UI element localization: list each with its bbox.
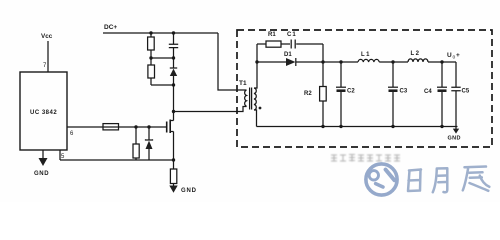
wire RC corner drop bbox=[322, 44, 324, 62]
transformer T1 primary winding bbox=[245, 90, 247, 106]
wire L1 to L2 bbox=[379, 61, 408, 63]
transistor Q1 MOSFET bbox=[166, 122, 168, 133]
svg-text:C3: C3 bbox=[400, 89, 408, 95]
node polarity dot bbox=[259, 107, 262, 110]
svg-text:C2: C2 bbox=[347, 89, 355, 95]
wire primary bottom lead bbox=[174, 107, 246, 112]
node Vcc bbox=[41, 33, 53, 40]
wire R6 bottom lead bbox=[150, 78, 152, 85]
wire Vcc stub bbox=[47, 41, 49, 72]
svg-text:+: + bbox=[456, 52, 460, 59]
transformer T1 secondary winding bbox=[254, 88, 256, 110]
resistor R7 current sense bbox=[170, 169, 176, 184]
wire zener top lead bbox=[148, 127, 150, 140]
capacitor C2 electrolytic bbox=[336, 86, 346, 88]
svg-text:6: 6 bbox=[70, 131, 74, 137]
wire secondary return rail bbox=[257, 126, 458, 128]
wire secondary top lead bbox=[254, 44, 257, 88]
logo characters 日月辰 bbox=[408, 167, 489, 193]
node DC+ bbox=[104, 24, 117, 31]
inductor L2 bbox=[408, 59, 428, 62]
wire source lead bbox=[173, 132, 175, 161]
svg-text:Vcc: Vcc bbox=[41, 33, 53, 40]
svg-text:DC+: DC+ bbox=[104, 24, 117, 31]
svg-text:U: U bbox=[447, 52, 452, 59]
pin 6 bbox=[70, 131, 74, 137]
resistor R3 gate series bbox=[103, 124, 119, 130]
wire R4 top lead bbox=[135, 127, 137, 144]
transformer T1 core bbox=[250, 88, 252, 110]
wire sense resistor bottom lead bbox=[173, 184, 175, 187]
wire R2 bottom lead bbox=[322, 101, 324, 127]
resistor R1 bbox=[266, 41, 281, 47]
wire zener bottom lead bbox=[148, 149, 150, 160]
wire C6 to D2 bbox=[173, 48, 175, 68]
svg-text:R2: R2 bbox=[304, 91, 312, 97]
wire C5 column bbox=[455, 62, 457, 87]
wire snubber bottom tie bbox=[151, 84, 174, 86]
resistor R2 load bbox=[320, 87, 327, 102]
wire C3 top lead bbox=[392, 62, 394, 87]
wire R2 top lead bbox=[322, 62, 324, 87]
pin 5 bbox=[61, 154, 65, 160]
svg-text:L2: L2 bbox=[411, 51, 421, 57]
node C4 bottom bbox=[440, 125, 443, 128]
wire C2 bottom lead bbox=[340, 92, 342, 127]
wire DC+ rail bbox=[103, 32, 218, 34]
ground under U1 bbox=[42, 150, 44, 159]
svg-text:R1: R1 bbox=[268, 32, 276, 38]
wire R1 to C1 bbox=[281, 43, 290, 45]
wire L2 to output bbox=[428, 61, 456, 63]
wire C6 top lead bbox=[173, 33, 175, 44]
wire D2 bottom lead bbox=[173, 76, 175, 85]
diode D2 snubber clamp bbox=[170, 67, 177, 69]
svg-text:GND: GND bbox=[181, 188, 197, 194]
node snubber R column top bbox=[149, 31, 152, 34]
wire R5 to R6 bbox=[150, 50, 152, 65]
wire C4 bottom lead bbox=[441, 92, 443, 127]
node C3 bottom bbox=[391, 125, 394, 128]
logo watermark circle bbox=[366, 164, 397, 195]
svg-text:7: 7 bbox=[43, 63, 47, 69]
wire pin5 stub bbox=[59, 150, 61, 160]
svg-text:C4: C4 bbox=[424, 89, 432, 95]
svg-text:T1: T1 bbox=[239, 80, 247, 87]
node gate junction B bbox=[147, 125, 150, 128]
ground output bbox=[453, 129, 459, 134]
wire R4 bottom lead bbox=[135, 158, 137, 160]
ground at source bbox=[169, 186, 177, 193]
diode D3 zener gate clamp bbox=[146, 138, 153, 141]
node snubber C column top bbox=[172, 31, 175, 34]
wire C2 top lead bbox=[340, 62, 342, 87]
node C4 top bbox=[440, 60, 443, 63]
svg-text:GND: GND bbox=[34, 171, 49, 177]
capacitor C3 electrolytic bbox=[388, 86, 398, 88]
wire R5 top lead bbox=[150, 33, 152, 37]
node snubber mid right bbox=[172, 56, 175, 59]
wire sense resistor top lead bbox=[173, 160, 175, 169]
diode D1 rectifier bbox=[286, 58, 296, 66]
wire C1 to corner bbox=[296, 43, 323, 45]
pin 7 bbox=[43, 63, 47, 69]
caption 输出整流滤波电路 (blurred) bbox=[331, 154, 400, 162]
node C3 top bbox=[391, 60, 394, 63]
wire gate wire bbox=[67, 126, 167, 128]
svg-text:5: 5 bbox=[61, 154, 65, 160]
wire C4 top lead bbox=[441, 62, 443, 87]
svg-text:UC 3842: UC 3842 bbox=[30, 110, 57, 116]
node R2 bottom bbox=[321, 125, 324, 128]
wire secondary bottom lead bbox=[254, 110, 257, 127]
capacitor C5 bbox=[451, 87, 460, 91]
node source junction bbox=[172, 158, 175, 161]
node snubber bottom junction bbox=[172, 83, 175, 86]
wire DC rail drop to primary bbox=[218, 33, 245, 90]
node C2 top bbox=[339, 60, 342, 63]
op-amp U1 UC3842 box bbox=[20, 72, 67, 150]
wire primary winding top hook bbox=[245, 89, 247, 91]
node drain junction bbox=[172, 110, 175, 113]
inductor L1 bbox=[358, 59, 379, 62]
node gate junction A bbox=[134, 125, 137, 128]
wire drain column bbox=[173, 85, 175, 121]
wire snubber mid tie bbox=[151, 57, 174, 59]
capacitor C6 snubber bbox=[169, 44, 178, 47]
node snubber mid left bbox=[149, 56, 152, 59]
wire D1 rail left bbox=[257, 61, 286, 63]
wire C5 bottom lead bbox=[455, 91, 457, 129]
svg-text:GND: GND bbox=[448, 136, 461, 142]
capacitor C4 electrolytic bbox=[437, 86, 447, 88]
transformer T1 bbox=[239, 80, 247, 87]
wire rail to C2 bbox=[323, 61, 358, 63]
resistor R6 snubber lower bbox=[148, 65, 155, 78]
node secondary top column bbox=[255, 60, 258, 63]
wire RC rail left bbox=[257, 43, 266, 45]
wire C3 bottom lead bbox=[392, 92, 394, 127]
wire primary winding bottom hook bbox=[246, 105, 247, 107]
resistor R5 snubber upper bbox=[148, 37, 155, 50]
svg-text:D1: D1 bbox=[284, 52, 292, 58]
node C2 bottom bbox=[339, 125, 342, 128]
svg-text:C5: C5 bbox=[462, 89, 470, 95]
dashed box output filter bbox=[237, 30, 492, 147]
resistor R4 gate-source bbox=[133, 144, 139, 158]
wire D1 to node bbox=[296, 61, 323, 63]
svg-text:C1: C1 bbox=[287, 32, 297, 38]
node rectified rail junction bbox=[321, 60, 324, 63]
capacitor C1 bbox=[291, 40, 295, 49]
wire source rail bbox=[60, 159, 174, 161]
node Uo+ output bbox=[447, 52, 460, 61]
svg-text:L1: L1 bbox=[361, 52, 371, 58]
